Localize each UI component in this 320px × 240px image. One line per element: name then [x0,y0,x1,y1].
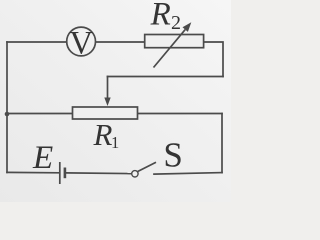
svg-text:R: R [93,117,113,152]
wire: R2 to top-right corner, down right side [204,42,223,77]
wire: wiper horizontal [108,76,224,78]
switch S lever [138,162,156,171]
svg-text:S: S [163,136,182,175]
node junction dot [5,112,10,117]
wire: right lower vertical [221,114,223,173]
battery E long plate [59,162,61,184]
wire: left vertical [6,42,8,172]
resistor R2 arrow [154,22,192,67]
resistor R1 body [73,107,138,119]
battery E short plate [64,168,67,179]
svg-text:R: R [150,0,171,33]
R1 wiper arrowhead [104,98,110,107]
wire: R1 right lead [138,113,223,115]
wire: voltmeter to R2 [96,41,145,43]
wire: wiper vertical [107,77,109,100]
wire: top from corner to voltmeter [7,41,67,43]
svg-text:V: V [70,26,94,62]
wire: switch contact to bottom-right corner [154,173,222,175]
wire: battery to switch [66,172,132,175]
svg-text:E: E [32,140,53,176]
switch S pivot circle [132,171,138,177]
svg-text:1: 1 [111,133,119,152]
voltmeter U1 circle [67,27,96,56]
wire: bottom left to battery [7,171,59,173]
wire: R1 left lead [7,113,73,115]
svg-text:2: 2 [171,12,181,34]
resistor R2 body [145,35,204,48]
